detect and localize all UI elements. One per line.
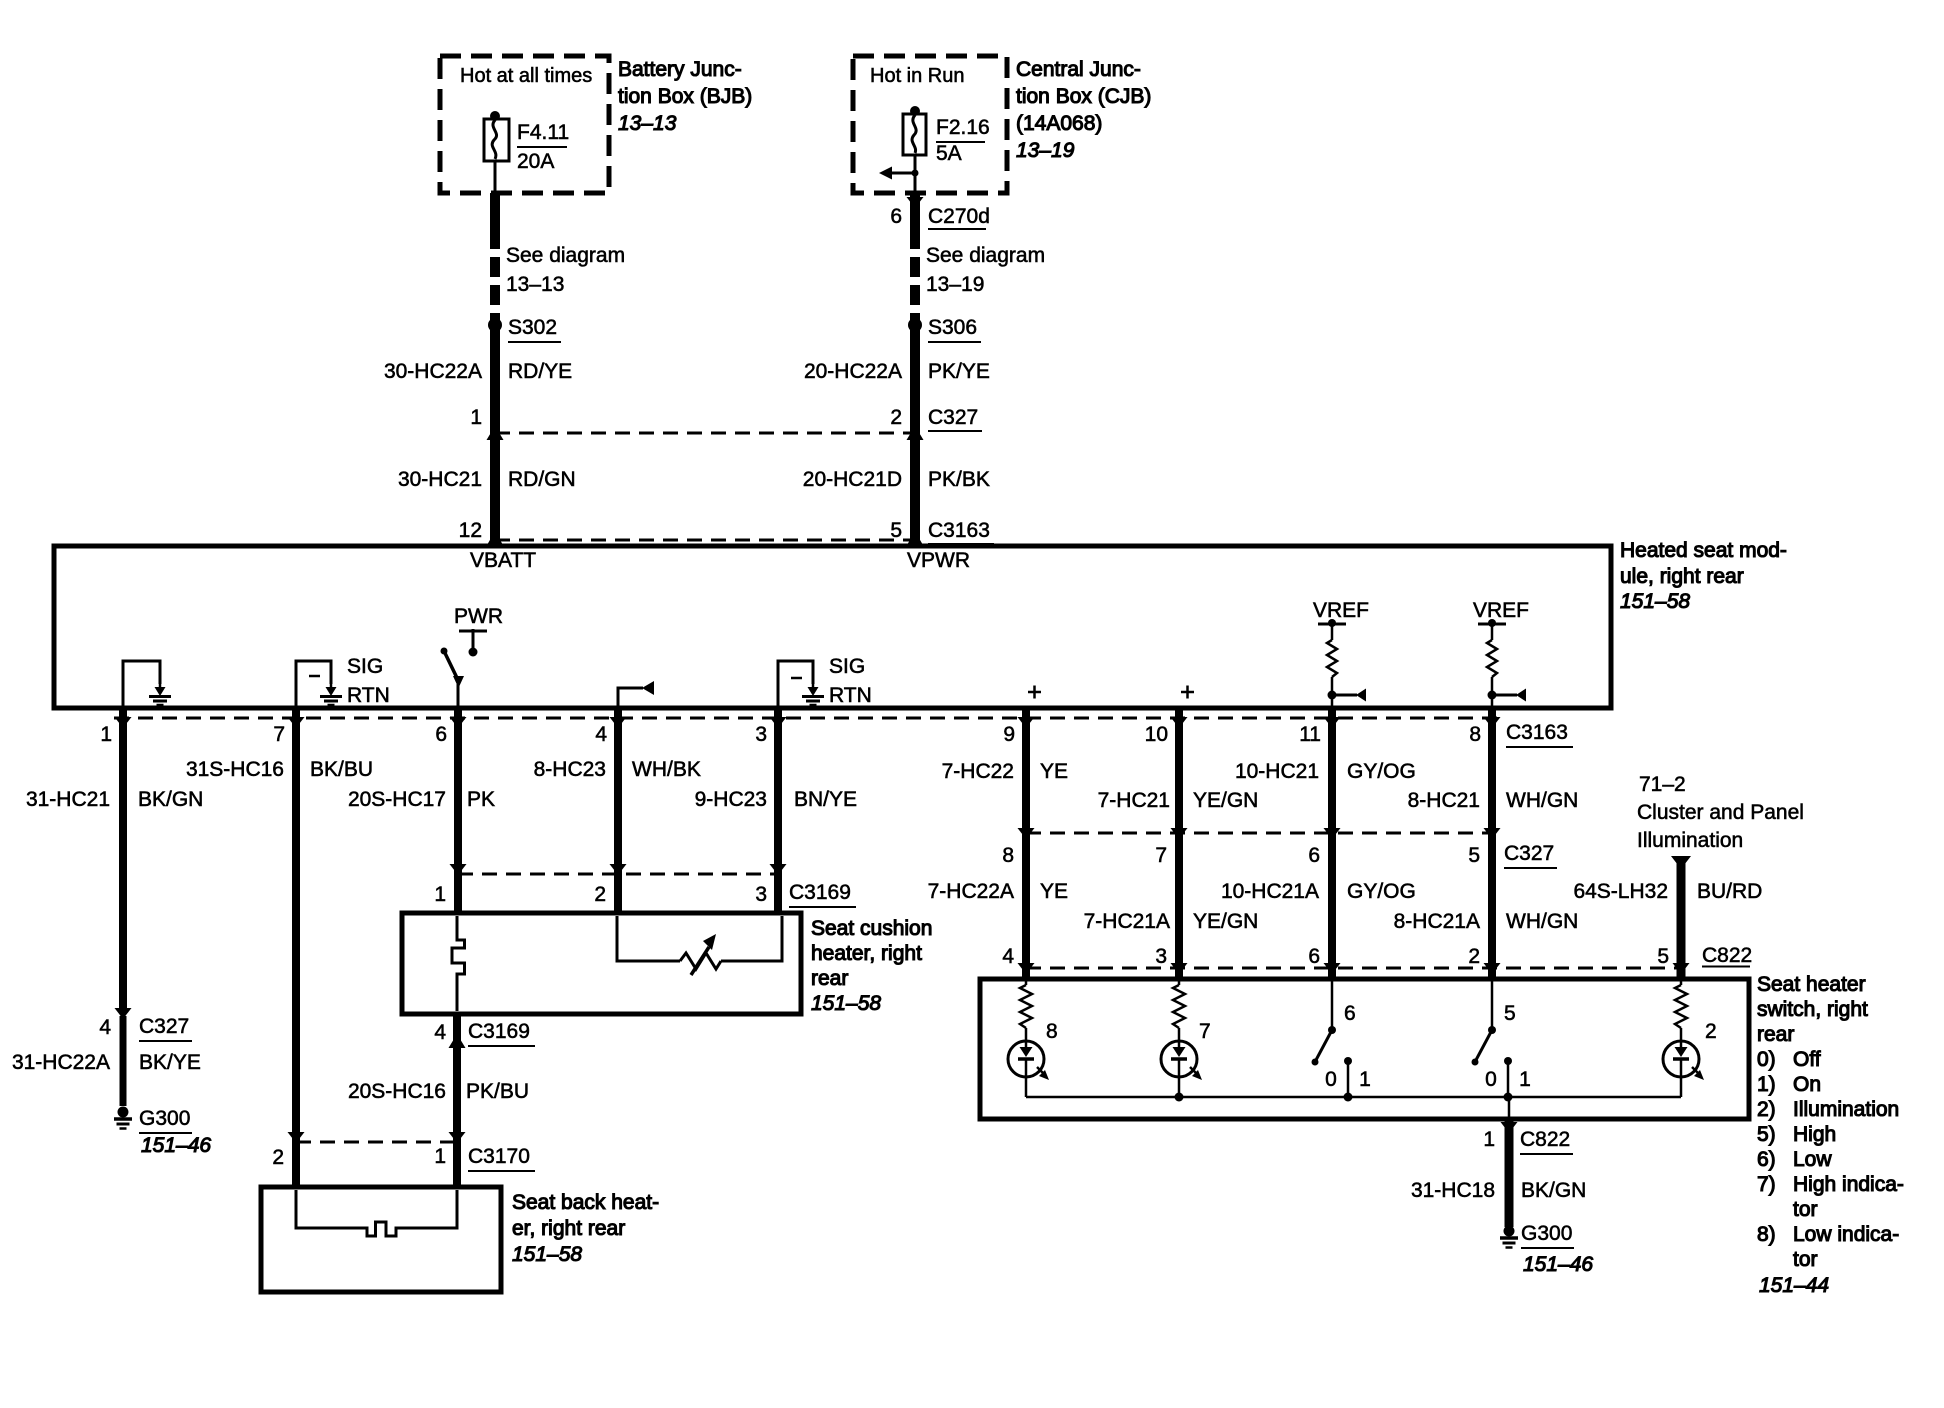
svg-text:8): 8) [1757,1223,1776,1246]
connector C3170 pin 2 arrow [288,1132,305,1143]
svg-text:See diagram: See diagram [506,244,625,267]
indicator LED pin 7 (high indicator) [1178,981,1181,985]
svg-text:See diagram: See diagram [926,244,1045,267]
svg-text:7: 7 [1155,844,1167,867]
connector C3169 dashed line [458,873,778,876]
svg-text:8-HC21A: 8-HC21A [1394,910,1480,933]
svg-text:3: 3 [1155,945,1167,968]
svg-text:7-HC22A: 7-HC22A [928,880,1014,903]
svg-text:F4.11: F4.11 [517,121,569,144]
svg-text:VPWR: VPWR [907,549,970,572]
connector C3169 pin 4 arrow [449,1034,466,1048]
svg-text:31-HC22A: 31-HC22A [12,1051,110,1074]
svg-text:YE: YE [1040,880,1068,903]
svg-text:C3163: C3163 [928,519,990,542]
svg-text:BK/BU: BK/BU [310,758,373,781]
svg-text:13–19: 13–19 [1016,139,1075,162]
svg-text:PK/BK: PK/BK [928,468,990,491]
connector C3163 dashed line (module bottom) [114,717,1497,720]
splice S306 [908,318,922,332]
svg-text:C327: C327 [928,406,978,429]
svg-text:G300: G300 [139,1107,190,1130]
svg-text:64S-LH32: 64S-LH32 [1573,880,1668,903]
arrow to other circuits inside CJB [890,172,915,175]
svg-text:VBATT: VBATT [470,549,536,572]
module internal plus (pin 9) [1028,691,1041,694]
svg-text:tor: tor [1793,1248,1818,1271]
connector C822 pin 4 arrow [1018,963,1035,974]
svg-text:8: 8 [1469,723,1481,746]
svg-text:7-HC21A: 7-HC21A [1084,910,1170,933]
svg-text:3: 3 [755,723,767,746]
svg-text:31S-HC16: 31S-HC16 [186,758,284,781]
connector C822 pin 3 arrow [1171,963,1188,974]
svg-text:8-HC23: 8-HC23 [534,758,606,781]
svg-text:GY/OG: GY/OG [1347,760,1416,783]
module internal plus (pin 10) [1181,691,1194,694]
svg-text:1: 1 [1359,1068,1371,1091]
svg-text:BU/RD: BU/RD [1697,880,1762,903]
svg-text:151–58: 151–58 [811,992,881,1015]
svg-text:0: 0 [1485,1068,1497,1091]
wire 31-HC21 BK/GN (pin 1) [119,710,127,1012]
svg-text:11: 11 [1299,723,1321,746]
svg-text:switch, right: switch, right [1757,998,1868,1021]
svg-text:C3169: C3169 [468,1020,530,1043]
module internal SIG RTN ground (pin 3) [778,661,813,706]
wire 8-HC21 WH/GN (pin 8) [1488,710,1496,977]
indicator LED pin 8 (low indicator) [1025,981,1028,985]
svg-text:High: High [1793,1123,1836,1146]
svg-text:4: 4 [434,1021,446,1044]
wire 30-HC22A RD/YE from BJB fuse [490,193,500,229]
svg-text:C3169: C3169 [789,881,851,904]
svg-text:On: On [1793,1073,1821,1096]
svg-text:C3163: C3163 [1506,721,1568,744]
module internal SIG RTN ground (pin 7) [296,661,331,706]
svg-text:WH/GN: WH/GN [1506,789,1578,812]
svg-text:S306: S306 [928,316,977,339]
svg-text:4: 4 [1002,945,1014,968]
svg-text:PWR: PWR [454,605,503,628]
svg-text:tion Box (CJB): tion Box (CJB) [1016,85,1151,108]
svg-text:20S-HC16: 20S-HC16 [348,1080,446,1103]
svg-text:SIG: SIG [829,655,865,678]
connector C822 dashed line [1026,967,1681,970]
svg-text:C270d: C270d [928,205,990,228]
connector C3163 dashed line (top) [495,539,915,542]
svg-text:C3170: C3170 [468,1145,530,1168]
svg-text:2: 2 [272,1146,284,1169]
connector C822 pin 2 arrow [1484,963,1501,974]
wire 7-HC22 YE (pin 9) [1022,710,1030,977]
svg-text:PK: PK [467,788,495,811]
seat heater switch, right rear (box) [980,979,1749,1119]
connector C270d pin 6 [907,197,924,208]
svg-text:31-HC21: 31-HC21 [26,788,110,811]
svg-text:10-HC21: 10-HC21 [1235,760,1319,783]
svg-text:6: 6 [890,205,902,228]
connector C327 pin 6 arrow [1324,828,1341,839]
svg-text:(14A068): (14A068) [1016,112,1102,135]
wire 7-HC21 YE/GN (pin 10) [1175,710,1183,977]
svg-text:20S-HC17: 20S-HC17 [348,788,446,811]
svg-text:2: 2 [594,883,606,906]
svg-text:heater, right: heater, right [811,942,922,965]
svg-text:YE/GN: YE/GN [1193,789,1258,812]
svg-text:BN/YE: BN/YE [794,788,857,811]
svg-text:5: 5 [1504,1002,1516,1025]
svg-text:VREF: VREF [1473,599,1529,622]
switch internal bus wire [1026,1096,1681,1099]
connector C822 pin 5 arrow [1673,963,1690,974]
svg-text:71–2: 71–2 [1639,773,1686,796]
svg-text:20-HC22A: 20-HC22A [804,360,902,383]
ground G300 (right) [1504,1226,1515,1237]
svg-text:Off: Off [1793,1048,1821,1071]
svg-text:Battery Junc-: Battery Junc- [618,58,742,81]
wire 10-HC21 GY/OG (pin 11) [1328,710,1336,977]
svg-text:RD/GN: RD/GN [508,468,576,491]
svg-text:10: 10 [1145,723,1168,746]
svg-text:7: 7 [1199,1020,1211,1043]
svg-text:Illumination: Illumination [1637,829,1743,852]
svg-text:1: 1 [1519,1068,1531,1091]
svg-text:13–13: 13–13 [506,273,564,296]
svg-text:PK/BU: PK/BU [466,1080,529,1103]
svg-text:ule, right rear: ule, right rear [1620,565,1744,588]
svg-text:PK/YE: PK/YE [928,360,990,383]
svg-text:31-HC18: 31-HC18 [1411,1179,1495,1202]
svg-text:2: 2 [890,406,902,429]
svg-text:6: 6 [1344,1002,1356,1025]
svg-text:Hot in Run: Hot in Run [870,65,965,87]
module internal ground (pin 1) [123,661,160,706]
svg-text:Seat back heat-: Seat back heat- [512,1191,659,1214]
heater element (variable resistor) inside cushion heater [617,916,680,961]
svg-text:Illumination: Illumination [1793,1098,1899,1121]
svg-text:tor: tor [1793,1198,1818,1221]
wire 20S-HC17 PK (pin 6) [454,710,462,911]
svg-text:rear: rear [1757,1023,1794,1046]
connector C327 pin 7 arrow [1171,828,1188,839]
connector C3169 pin 1 arrow [450,864,467,875]
svg-text:BK/YE: BK/YE [139,1051,201,1074]
svg-text:BK/GN: BK/GN [1521,1179,1586,1202]
svg-text:rear: rear [811,967,848,990]
svg-text:Cluster and Panel: Cluster and Panel [1637,801,1804,824]
svg-text:YE/GN: YE/GN [1193,910,1258,933]
module internal signal arrow (pin 4) [618,688,643,706]
connector C327 pin 5 arrow [1484,828,1501,839]
wire 9-HC23 BN/YE (pin 3) [774,710,782,911]
svg-text:Low indica-: Low indica- [1793,1223,1899,1246]
svg-text:8: 8 [1046,1020,1058,1043]
indicator LED pin 2 (illumination) [1680,981,1683,985]
svg-text:7-HC21: 7-HC21 [1098,789,1170,812]
svg-text:C822: C822 [1520,1128,1570,1151]
svg-text:5: 5 [1657,945,1669,968]
wire 64S-LH32 BU/RD from cluster illumination [1671,856,1691,869]
ground G300 (left) [118,1107,129,1118]
svg-text:5A: 5A [936,142,962,165]
switch output wire to C822 pin 1 [1508,1097,1511,1119]
svg-text:WH/BK: WH/BK [632,758,701,781]
svg-text:6: 6 [435,723,447,746]
connector C327 pin 4 (inline) [115,1008,132,1019]
svg-text:4: 4 [99,1016,111,1039]
svg-text:2): 2) [1757,1098,1776,1121]
connector C3169 pin 3 arrow [770,864,787,875]
svg-text:Seat heater: Seat heater [1757,973,1866,996]
connector C327 dashed line (middle) [1026,832,1492,835]
svg-text:1: 1 [100,723,112,746]
svg-text:S302: S302 [508,316,557,339]
svg-text:5): 5) [1757,1123,1776,1146]
svg-text:8: 8 [1002,844,1014,867]
svg-text:tion Box (BJB): tion Box (BJB) [618,85,752,108]
svg-text:Hot at all times: Hot at all times [460,65,592,87]
svg-text:6: 6 [1308,844,1320,867]
svg-text:7-HC22: 7-HC22 [942,760,1014,783]
svg-text:13–19: 13–19 [926,273,984,296]
svg-text:13–13: 13–13 [618,112,677,135]
svg-text:7): 7) [1757,1173,1776,1196]
connector C3170 dashed line [296,1141,457,1144]
svg-text:151–58: 151–58 [1620,590,1690,613]
svg-text:C822: C822 [1702,944,1752,967]
svg-text:3: 3 [755,883,767,906]
svg-text:C327: C327 [139,1015,189,1038]
svg-text:151–46: 151–46 [1523,1253,1593,1276]
seat cushion heater, right rear (box) [402,913,801,1014]
svg-text:30-HC21: 30-HC21 [398,468,482,491]
svg-text:Low: Low [1793,1148,1832,1171]
svg-text:YE: YE [1040,760,1068,783]
wire 31S-HC16 BK/BU (pin 7) [292,710,300,1185]
svg-text:High indica-: High indica- [1793,1173,1904,1196]
svg-text:1: 1 [434,1145,446,1168]
svg-text:9: 9 [1003,723,1015,746]
svg-text:1): 1) [1757,1073,1776,1096]
svg-text:0): 0) [1757,1048,1776,1071]
svg-text:151–46: 151–46 [141,1134,211,1157]
svg-text:RD/YE: RD/YE [508,360,572,383]
switch contact 5 (high) [1491,981,1494,1028]
connector C3170 pin 1 arrow [449,1132,466,1143]
svg-text:10-HC21A: 10-HC21A [1221,880,1319,903]
svg-text:151–58: 151–58 [512,1243,582,1266]
svg-text:GY/OG: GY/OG [1347,880,1416,903]
svg-text:6: 6 [1308,945,1320,968]
svg-text:RTN: RTN [347,684,390,707]
svg-text:8-HC21: 8-HC21 [1408,789,1480,812]
svg-text:F2.16: F2.16 [936,116,990,139]
svg-text:G300: G300 [1521,1222,1572,1245]
svg-text:Seat cushion: Seat cushion [811,917,932,940]
svg-text:30-HC22A: 30-HC22A [384,360,482,383]
svg-text:9-HC23: 9-HC23 [695,788,767,811]
svg-text:1: 1 [470,406,482,429]
svg-text:C327: C327 [1504,842,1554,865]
wire pin2 into cushion heater [454,874,462,911]
svg-text:SIG: SIG [347,655,383,678]
connector C327 pin 2 arrow [907,426,924,440]
fuse F4.11 20A [490,111,500,121]
heater element inside seat back heater [296,1190,457,1236]
svg-text:Central Junc-: Central Junc- [1016,58,1141,81]
switch contact 6 (low) [1331,981,1334,1028]
svg-text:er, right rear: er, right rear [512,1217,625,1240]
thermal limiter inside cushion heater [452,916,465,1011]
heated seat module, right rear (box) [54,546,1611,708]
splice S302 [488,318,502,332]
svg-text:2: 2 [1705,1020,1717,1043]
svg-text:VREF: VREF [1313,599,1369,622]
seat back heater, right rear (box) [261,1187,501,1292]
wire 20S-HC16 PK/BU from cushion heater pin 4 [453,1016,461,1185]
svg-text:20-HC21D: 20-HC21D [803,468,902,491]
power source box: Battery Junction Box (Hot at all times) [440,56,609,193]
fuse F2.16 5A [910,106,920,116]
connector C822 pin 1 arrow [1501,1122,1518,1133]
wire 8-HC23 WH/BK (pin 4) [614,710,622,911]
svg-text:6): 6) [1757,1148,1776,1171]
svg-text:2: 2 [1468,945,1480,968]
svg-text:Heated seat mod-: Heated seat mod- [1620,539,1787,562]
wire 20-HC22A PK/YE from CJB fuse [910,193,920,229]
connector C327 pin 8 arrow [1018,828,1035,839]
svg-text:0: 0 [1325,1068,1337,1091]
svg-text:WH/GN: WH/GN [1506,910,1578,933]
svg-text:20A: 20A [517,150,554,173]
svg-text:12: 12 [459,519,482,542]
connector C3169 pin 2 arrow [610,864,627,875]
connector C822 pin 6 arrow [1324,963,1341,974]
wire 31-HC22A BK/YE [120,1016,127,1106]
svg-text:151–44: 151–44 [1759,1274,1829,1297]
svg-text:BK/GN: BK/GN [138,788,203,811]
svg-text:RTN: RTN [829,684,872,707]
svg-text:4: 4 [595,723,607,746]
svg-text:5: 5 [1468,844,1480,867]
svg-text:1: 1 [434,883,446,906]
connector C327 dashed line [495,432,915,435]
svg-text:1: 1 [1483,1128,1495,1151]
power source box: Central Junction Box (Hot in Run) [853,56,1007,193]
svg-text:7: 7 [273,723,285,746]
